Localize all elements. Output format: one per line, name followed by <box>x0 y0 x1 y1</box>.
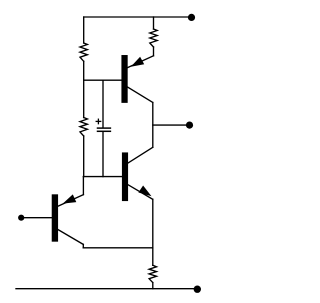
wire Q1 collector corner <box>82 244 84 247</box>
wire Q1 emitter stub from node line <box>82 177 84 195</box>
wire mid tap to right terminal <box>153 124 190 126</box>
wire left vertical (rail to R1) <box>83 17 85 43</box>
wire R1 to node junction / R2 <box>83 61 85 117</box>
wire Q1 emitter diagonal <box>57 195 83 207</box>
wire node line (Q1 emitter / C1 / Q2 base) <box>83 176 122 178</box>
resistor R3 <box>150 29 157 47</box>
capacitor C1 <box>98 128 111 131</box>
resistor R4 <box>149 265 156 282</box>
wire C1 bottom lead <box>102 132 104 177</box>
transistor Q1 base bar <box>52 195 57 241</box>
wire top rail <box>84 16 192 18</box>
wire Q1 collector diagonal <box>57 229 83 244</box>
transistor Q3 emitter arrow (PNP, into bar) <box>131 57 144 67</box>
wire Q3 collector diagonal <box>127 87 153 103</box>
terminal dot top right <box>188 14 195 21</box>
resistor R2 <box>80 118 87 137</box>
capacitor C1 polarity + <box>96 119 101 124</box>
wire R3 stub from rail <box>153 17 155 29</box>
wire Q1 base line <box>24 217 52 219</box>
wire C1 top lead <box>102 80 104 127</box>
resistor R1 <box>80 43 87 61</box>
wire bottom rail <box>16 288 197 290</box>
terminal dot right mid <box>186 122 193 129</box>
transistor Q1 emitter arrow (PNP, into bar) <box>63 194 77 203</box>
wire right vertical Q3 collector to Q2 collector <box>152 103 154 148</box>
transistor Q3 base bar <box>122 56 127 102</box>
transistor Q2 base bar <box>123 153 128 200</box>
transistor Q2 emitter diagonal <box>127 184 152 199</box>
wire Q2 emitter vertical to R4 <box>152 199 154 265</box>
terminal dot bottom right <box>194 286 201 293</box>
terminal dot left (Q1 base) <box>18 215 24 221</box>
wire R4 to bottom rail <box>152 283 154 289</box>
wire Q3 emitter diagonal <box>127 56 154 68</box>
transistor Q2 emitter arrow (NPN, away from bar) <box>138 186 151 197</box>
wire Q3 base line <box>84 79 123 81</box>
wire R3 to Q3 emitter corner <box>153 47 155 56</box>
wire R2 down to node line <box>83 136 85 177</box>
wire Q2 collector diagonal <box>127 147 153 163</box>
wire Q1 collector feed line <box>83 247 153 249</box>
